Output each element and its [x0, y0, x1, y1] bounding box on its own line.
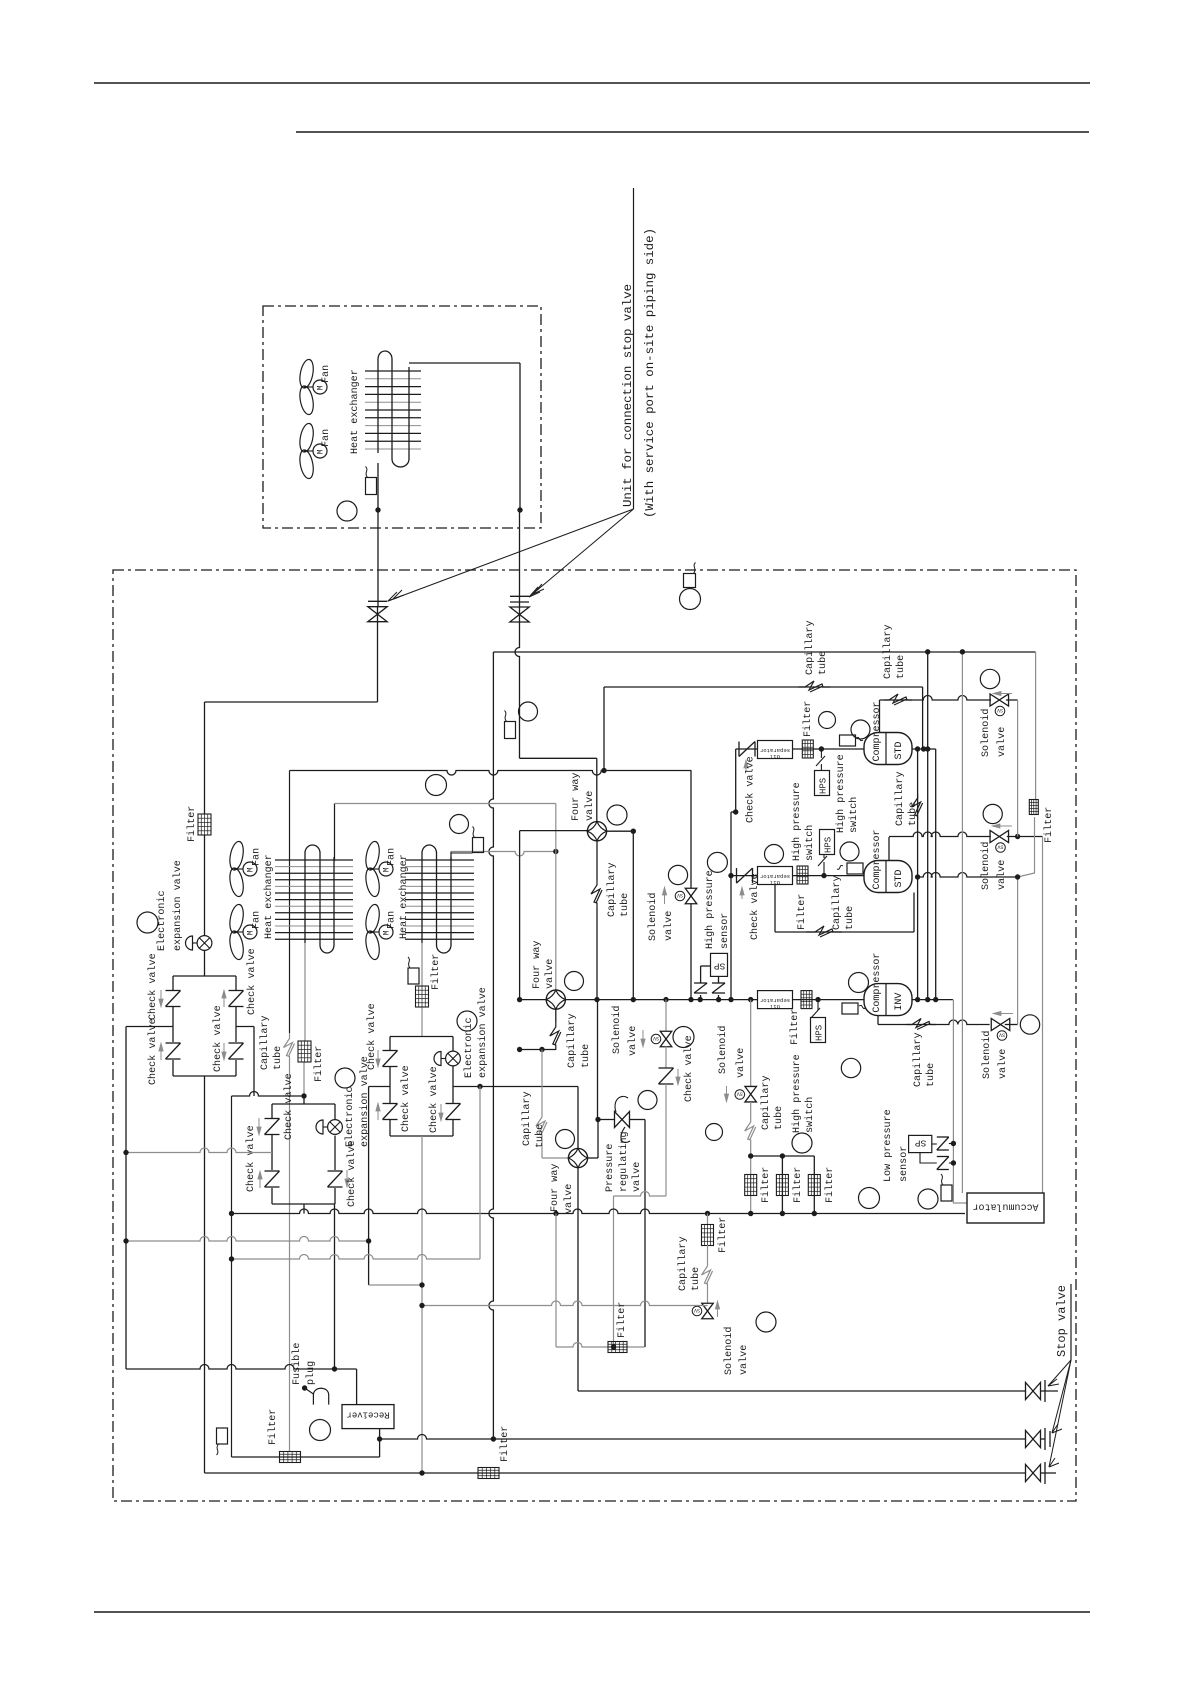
check valve bridge 2	[272, 1103, 335, 1105]
electronic expansion valve 1	[204, 835, 206, 936]
svg-text:Capillary: Capillary	[566, 1013, 578, 1068]
wire bridge2 feed junction	[301, 1093, 306, 1098]
filter STD1	[802, 740, 813, 758]
svg-text:Compressor: Compressor	[872, 829, 883, 889]
ref circle PRV	[638, 1091, 657, 1110]
wire bridge3 right tap	[453, 1086, 578, 1088]
svg-text:Receiver: Receiver	[346, 1410, 389, 1420]
svg-text:Solenoid: Solenoid	[717, 1026, 729, 1074]
check valve B2 bottom-left	[265, 1170, 280, 1172]
svg-text:M: M	[383, 867, 392, 872]
svg-text:M: M	[247, 930, 256, 935]
svg-text:Check valve: Check valve	[683, 1035, 695, 1102]
ref circle soldis2	[983, 804, 1002, 823]
wire indoor gas to stop valve B	[519, 510, 521, 606]
svg-text:Fan: Fan	[387, 848, 398, 866]
indoor fan 2	[298, 422, 316, 453]
ref circles filter area	[706, 1124, 723, 1141]
svg-text:tube: tube	[690, 1267, 702, 1291]
svg-text:Check valve: Check valve	[246, 948, 258, 1015]
stop valve bottom 2	[1026, 1431, 1034, 1448]
solenoid valve 2	[750, 1000, 752, 1086]
wire receiver bottom	[379, 1429, 381, 1457]
node indoor liquid junction	[375, 507, 380, 512]
svg-text:Filter: Filter	[430, 954, 442, 990]
ref circle FWV1	[607, 805, 627, 825]
capillary on INV feed	[912, 794, 921, 820]
ref circles STD1	[819, 712, 836, 729]
svg-text:Capillary: Capillary	[882, 624, 894, 679]
ref circle FWV2	[565, 972, 584, 991]
filter trio leg 1	[745, 1175, 757, 1196]
arrow B3 BR	[440, 1104, 442, 1114]
arrow check valve STD1	[745, 767, 747, 772]
high pressure sensor SP box	[711, 953, 728, 976]
svg-text:SV: SV	[999, 1032, 1005, 1038]
node four-way 2 feed	[553, 849, 558, 854]
outdoor heat exchanger 1	[275, 859, 353, 861]
ref circle FWV3	[556, 1130, 575, 1149]
svg-text:Filter: Filter	[499, 1426, 511, 1462]
wire bridge3 bottom tap	[421, 1136, 423, 1306]
EEV bridge 2	[328, 1120, 343, 1135]
check valve B1 bottom-left	[166, 1042, 181, 1044]
solenoid valve discharge 2	[990, 831, 999, 843]
svg-text:tube: tube	[895, 655, 907, 679]
svg-text:High pressure: High pressure	[791, 782, 803, 861]
check valve STD1	[738, 742, 740, 757]
svg-text:valve: valve	[544, 959, 556, 989]
svg-text:SV: SV	[677, 892, 683, 898]
ref circle solenoid 3	[673, 1027, 694, 1048]
solenoid valve 3	[665, 1000, 667, 1031]
svg-text:Capillary: Capillary	[606, 862, 618, 917]
svg-text:Filter: Filter	[760, 1167, 772, 1203]
capillary oil return	[707, 1245, 709, 1262]
ref circle soldis1	[980, 669, 999, 688]
HPS connector STD1	[820, 749, 822, 758]
ref circle EEV3	[457, 1011, 477, 1031]
svg-text:Filter: Filter	[824, 1167, 836, 1203]
wire four way 3 right port	[588, 1157, 599, 1159]
svg-text:expansion valve: expansion valve	[172, 860, 184, 951]
svg-text:Check valve: Check valve	[428, 1066, 440, 1133]
solenoid valve 4	[991, 1019, 1000, 1031]
svg-text:tube: tube	[580, 1044, 592, 1068]
svg-text:Capillary: Capillary	[804, 620, 816, 675]
capillary on left header	[284, 1033, 293, 1062]
filter receiver line	[280, 1452, 301, 1463]
svg-text:Check valve: Check valve	[147, 1018, 159, 1085]
svg-text:Solenoid: Solenoid	[980, 842, 992, 890]
svg-text:Check valve: Check valve	[212, 1005, 224, 1072]
wire STD1 right side	[912, 748, 936, 750]
svg-text:Filter: Filter	[789, 1009, 801, 1045]
compressor STD1	[864, 733, 912, 765]
fusible plug	[305, 1388, 314, 1394]
solenoid valve 5	[702, 1303, 714, 1311]
ref circle INV	[849, 973, 869, 993]
thermistor HX2 gas side	[473, 838, 484, 853]
wire INV suction capillary	[877, 1016, 879, 1025]
arrow B3 BL	[377, 1110, 379, 1120]
wire STD2 return drop	[961, 652, 963, 1193]
filter liquid stop valve line	[478, 1468, 499, 1479]
indoor ref circle	[337, 501, 357, 521]
svg-text:Filter: Filter	[186, 806, 198, 842]
svg-text:Capillary: Capillary	[521, 1091, 533, 1146]
svg-text:sensor: sensor	[899, 1146, 910, 1182]
wire hot gas right drop	[1035, 652, 1037, 801]
wire filter trio header	[751, 1155, 815, 1157]
svg-text:(With service port on-site pip: (With service port on-site piping side)	[643, 228, 657, 518]
filter liquid sub line	[608, 1342, 627, 1353]
filter INV	[801, 991, 812, 1009]
svg-text:valve: valve	[631, 1162, 643, 1192]
wire equalize to solenoid drops	[918, 873, 1018, 878]
wire bridge3 left tap bottom	[369, 1284, 422, 1286]
ref circle EEV2	[335, 1068, 355, 1088]
wire four-way 1 left port riser	[520, 830, 588, 832]
svg-text:tube: tube	[534, 1124, 546, 1148]
arrow B3 TL	[377, 1050, 379, 1060]
wire bridge3 left tap	[369, 1086, 390, 1088]
svg-text:Filter: Filter	[616, 1302, 628, 1338]
thermistor pocket STD2	[847, 863, 863, 874]
ref circle receiver	[310, 1420, 331, 1441]
solenoid valve 3 arrow	[642, 1030, 644, 1040]
top-right ref circle	[680, 589, 701, 610]
wire bridge1 right tap	[236, 1026, 254, 1028]
svg-text:expansion valve: expansion valve	[477, 987, 489, 1078]
svg-text:Unit for connection stop valve: Unit for connection stop valve	[621, 284, 635, 507]
svg-text:Heat exchanger: Heat exchanger	[349, 369, 361, 454]
node HPS1 tap	[819, 746, 824, 751]
wire EEV1 to bridge 1	[204, 951, 206, 977]
svg-text:tube: tube	[619, 893, 631, 917]
wire lower header 1	[126, 1237, 369, 1242]
oil separator STD2	[758, 867, 793, 885]
svg-text:Fan: Fan	[321, 429, 332, 447]
filter right	[1029, 800, 1038, 815]
ref circles accumulator area	[859, 1188, 880, 1209]
svg-text:Capillary: Capillary	[831, 875, 843, 930]
outdoor fan 4	[364, 903, 382, 934]
oil separator INV	[758, 991, 793, 1009]
svg-text:Electronic: Electronic	[463, 1017, 475, 1078]
wire liquid sub line with filter	[556, 1343, 645, 1347]
svg-text:Accumulator: Accumulator	[972, 1201, 1038, 1213]
svg-text:valve: valve	[735, 1048, 747, 1078]
wire bypass return	[422, 1301, 708, 1306]
high pressure switch STD2	[820, 830, 835, 855]
note arrow to stop valve A	[388, 509, 634, 601]
svg-text:Filter: Filter	[796, 894, 808, 930]
node HPS2 tap	[821, 873, 826, 878]
svg-text:Four way: Four way	[571, 773, 582, 821]
arrow B1 TR	[223, 997, 225, 1007]
node indoor gas junction	[517, 507, 522, 512]
svg-text:Filter: Filter	[1043, 807, 1055, 843]
svg-text:Heat exchanger: Heat exchanger	[263, 854, 275, 939]
svg-text:valve: valve	[563, 1184, 575, 1214]
svg-text:valve: valve	[997, 1049, 1009, 1079]
svg-text:SP: SP	[915, 1138, 927, 1149]
receiver	[342, 1405, 394, 1429]
wire gas stop valve line	[578, 1390, 1026, 1392]
check valve B1 top-right	[229, 990, 244, 992]
accumulator	[967, 1193, 1044, 1223]
svg-text:Check valve: Check valve	[283, 1073, 295, 1140]
arrow check valve STD2	[741, 894, 743, 899]
svg-text:Check valve: Check valve	[366, 1003, 378, 1070]
wire bridge1 bottom tap (liquid out)	[204, 1076, 206, 1473]
check valve B3 bottom-left	[383, 1103, 398, 1105]
svg-text:M: M	[383, 930, 392, 935]
svg-text:M: M	[317, 449, 326, 454]
svg-text:Capillary: Capillary	[760, 1075, 772, 1130]
svg-text:sensor: sensor	[720, 913, 731, 949]
pressure regulating valve	[598, 1119, 615, 1121]
wire four-way 2 top feed	[555, 804, 557, 991]
svg-text:valve: valve	[996, 860, 1008, 890]
ref circle near header	[426, 775, 447, 796]
ref circle EEV1	[137, 912, 158, 933]
solenoid valve discharge 1	[990, 694, 999, 706]
ref circle solenoid 5	[756, 1312, 776, 1332]
check valve STD2	[736, 868, 738, 883]
svg-text:Filter: Filter	[792, 1167, 804, 1203]
svg-text:High pressure: High pressure	[791, 1054, 803, 1133]
svg-text:Filter: Filter	[717, 1217, 729, 1253]
wire solenoid 4 up	[1005, 1024, 1018, 1026]
outdoor fan 2	[228, 903, 246, 934]
svg-text:tube: tube	[272, 1046, 284, 1070]
wire suction return	[232, 1209, 966, 1214]
thermistor HX2	[408, 968, 419, 984]
svg-text:Four way: Four way	[532, 941, 543, 989]
svg-text:HPS: HPS	[815, 1025, 825, 1041]
indoor heat exchanger	[365, 370, 421, 372]
svg-text:Check valve: Check valve	[346, 1140, 358, 1207]
wire solenoid discharge 1 drop	[1006, 699, 1018, 701]
svg-text:Filter: Filter	[313, 1046, 325, 1082]
compressor INV	[864, 984, 912, 1016]
outdoor fan 1	[228, 840, 246, 871]
note arrow to stop valve B	[529, 509, 634, 597]
wire STD1 discharge with capillary	[879, 700, 881, 733]
four way valve 3	[568, 1148, 587, 1167]
solenoid valve 5 arrow	[717, 1308, 719, 1317]
svg-text:M: M	[317, 385, 326, 390]
low pressure sensor SP box	[909, 1135, 932, 1152]
wire indoor liquid to stop valve A	[377, 463, 379, 606]
svg-text:valve: valve	[627, 1026, 639, 1056]
wire four way 3 bottom drop to stop valve wire	[577, 1168, 579, 1391]
svg-text:tube: tube	[907, 802, 919, 826]
svg-text:tube: tube	[817, 651, 829, 675]
high pressure switch STD1	[815, 771, 830, 796]
wire bridge2 bottom tap	[303, 1204, 305, 1214]
wire right return drop	[1042, 837, 1044, 1194]
indoor fan 1	[298, 358, 316, 389]
arrow B2 BL	[259, 1178, 261, 1188]
svg-text:Capillary: Capillary	[259, 1015, 271, 1070]
svg-text:INV: INV	[894, 993, 905, 1011]
wire STD2 discharge	[888, 837, 890, 861]
wire PRV down leg	[644, 1120, 646, 1348]
wire bridge2 right leg drop	[334, 1204, 336, 1369]
svg-text:Check valve: Check valve	[400, 1065, 412, 1132]
wire stop valve B to four-way 1 top	[515, 622, 520, 759]
thermistor pocket STD1	[840, 735, 856, 746]
wire to right drop	[1007, 836, 1043, 838]
outdoor fan 3	[364, 840, 382, 871]
filter on HX1 liquid line	[298, 1041, 311, 1062]
svg-text:Check valve: Check valve	[245, 1125, 257, 1192]
high pressure switch INV	[811, 1018, 826, 1043]
stop valve bottom 1	[1026, 1383, 1034, 1400]
ref circles STD2	[765, 845, 784, 864]
svg-text:tube: tube	[773, 1106, 785, 1130]
svg-text:Fusible: Fusible	[291, 1343, 303, 1385]
check valve B1 bottom-right	[229, 1042, 244, 1044]
svg-text:switch: switch	[804, 1097, 816, 1133]
indoor thermistor	[366, 478, 377, 495]
four way valve 1	[587, 822, 606, 841]
page sub-header rule	[296, 131, 1089, 133]
svg-text:M: M	[247, 867, 256, 872]
svg-text:Solenoid: Solenoid	[980, 709, 992, 757]
four way valve 2	[546, 990, 565, 1009]
oil separator STD1	[758, 741, 793, 759]
stop valve bottom 3	[1026, 1465, 1034, 1482]
check valve B3 bottom-right	[446, 1103, 461, 1105]
svg-text:Compressor: Compressor	[872, 701, 883, 761]
svg-text:Filter: Filter	[802, 701, 814, 737]
filter on HX2 liquid line	[416, 986, 429, 1007]
ref circle HX2	[450, 815, 469, 834]
arrow check valve suction	[677, 1069, 679, 1078]
indoor unit dash-dot box	[263, 306, 541, 528]
low pressure sensor taps	[932, 1143, 937, 1145]
HPS connector INV	[817, 1000, 819, 1010]
svg-text:HPS: HPS	[824, 837, 834, 853]
wire PRV branch	[595, 1117, 600, 1122]
wire four way 1 down with capillary	[596, 841, 598, 880]
svg-text:tube: tube	[844, 906, 856, 930]
outdoor heat exchanger 2	[405, 859, 474, 861]
wire four way 3 feed capillary	[539, 1047, 544, 1052]
svg-text:Solenoid: Solenoid	[611, 1006, 623, 1054]
thermistor receiver area	[217, 1428, 228, 1444]
wire STD1 suction line	[736, 748, 864, 750]
check valve suction bypass	[665, 1047, 667, 1069]
svg-text:STD: STD	[894, 741, 905, 759]
thermistor pocket INV	[842, 1003, 858, 1014]
wire HX2 gas header to four-way 2	[450, 852, 452, 862]
wire stop valve A down and left	[377, 622, 379, 703]
wire four-way 1 right port to STD riser	[607, 830, 634, 832]
wire HX2 liquid drop	[421, 943, 423, 986]
outdoor unit dash-dot box	[113, 570, 1076, 1501]
wire LP drop	[952, 1000, 954, 1201]
svg-text:SV: SV	[737, 1091, 743, 1097]
thermistor accumulator	[941, 1185, 952, 1201]
wire HX1 liquid drop	[304, 943, 306, 1041]
ref circle near gas line	[519, 702, 538, 721]
check valve B1 top-left	[166, 990, 181, 992]
svg-text:Pressure: Pressure	[605, 1144, 616, 1192]
svg-text:Compressor: Compressor	[872, 953, 883, 1013]
ref circle sensor area	[707, 852, 727, 872]
wire lower header 2	[232, 1255, 481, 1260]
high pressure sensor taps	[700, 966, 702, 983]
solenoid valve 2 arrow	[726, 1086, 728, 1095]
svg-text:Fan: Fan	[387, 911, 398, 929]
svg-text:STD: STD	[894, 869, 905, 887]
filter oil return	[702, 1225, 714, 1246]
svg-text:SV: SV	[997, 844, 1003, 850]
arrow B2 BR	[346, 1170, 348, 1180]
svg-text:Low pressure: Low pressure	[883, 1109, 894, 1182]
svg-text:Fan: Fan	[252, 911, 263, 929]
wire liquid stop valve line	[205, 1472, 1027, 1474]
wire receiver top feed	[126, 1365, 357, 1370]
svg-text:valve: valve	[584, 791, 596, 821]
svg-text:Capillary: Capillary	[912, 1032, 924, 1087]
HPS connector STD2	[823, 862, 825, 876]
svg-text:Four way: Four way	[550, 1164, 561, 1212]
svg-text:switch: switch	[804, 825, 816, 861]
arrow B1 BL	[160, 1050, 162, 1060]
svg-text:SV: SV	[694, 1307, 700, 1313]
svg-text:SP: SP	[714, 961, 726, 972]
EEV bridge 3	[446, 1051, 461, 1066]
svg-text:High pressure: High pressure	[704, 870, 716, 949]
svg-text:valve: valve	[996, 727, 1008, 757]
check valve B2 bottom-right	[328, 1170, 343, 1172]
ref circle solenoid 4	[1020, 1015, 1039, 1034]
wire bridge2 mid taps	[126, 1148, 272, 1153]
svg-text:High pressure: High pressure	[835, 754, 847, 833]
svg-text:SV: SV	[653, 1035, 659, 1041]
thermistor on gas line	[505, 722, 516, 739]
svg-text:Solenoid: Solenoid	[647, 893, 659, 941]
svg-text:Electronic: Electronic	[344, 1086, 356, 1147]
wire bridge1 left tap	[126, 1026, 173, 1028]
wire solenoid 2 capillary	[750, 1102, 752, 1120]
filter on liquid line	[198, 814, 211, 835]
stop valve arrows	[1048, 1360, 1071, 1386]
wire HX1 gas header to four-way 2	[334, 804, 336, 862]
wire STD2 oil capillary	[774, 885, 776, 933]
solenoid valve top (hot gas)	[690, 771, 692, 889]
check valve B2 top-left	[265, 1118, 280, 1120]
top-right thermistor	[684, 574, 696, 588]
wire four way 2 capillary loop	[555, 1009, 557, 1022]
svg-text:SV: SV	[997, 707, 1003, 713]
svg-text:tube: tube	[925, 1063, 937, 1087]
wire suction bypass down	[665, 1084, 667, 1196]
wire four way 3 top feed	[577, 1087, 579, 1149]
svg-text:plug: plug	[305, 1361, 317, 1385]
wire STD2 suction line	[731, 875, 864, 877]
solenoid valve top arrow	[664, 894, 666, 904]
note underline	[633, 188, 635, 509]
svg-text:switch: switch	[848, 797, 860, 833]
wire main suction line	[520, 999, 547, 1001]
